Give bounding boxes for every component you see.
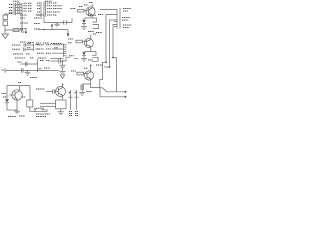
wire Q3 base: [10, 94, 16, 96]
wire lower-left bus vertical: [37, 59, 39, 72]
capacitor C12 row2 bank3: [12, 48, 34, 51]
wire Q3 emitter down: [16, 100, 18, 111]
net label cluster mid-left: [20, 15, 44, 32]
wire bus1 vertical: [21, 3, 23, 30]
label above cap row right: [69, 55, 74, 57]
net label row3 bank3: [13, 53, 23, 55]
crystal X1 box: [27, 100, 33, 107]
wire far right vertical long: [116, 58, 118, 92]
label Q2b collector: [93, 33, 96, 35]
label left of collector: [84, 4, 88, 6]
wire corner up right: [46, 109, 48, 112]
net labels column right of bus1: [24, 3, 33, 11]
label under K2: [96, 64, 103, 66]
switch SW1 blade: [102, 87, 108, 92]
label row under mid section: [20, 42, 62, 44]
relay K2 winding lower: [92, 57, 98, 61]
junction bus1 bottom: [21, 29, 23, 31]
resistor R1 divider top: [4, 14, 6, 16]
resistor R2 divider bottom: [3, 21, 8, 26]
capacitor C8 row4 bank2: [37, 10, 60, 13]
junction bus C bottom: [105, 61, 107, 63]
capacitor C18: [21, 68, 23, 73]
wire bottom run: [30, 111, 47, 113]
wire X1 down: [29, 107, 31, 112]
net label row4 bank3: [15, 57, 25, 59]
wire contact line upper: [107, 91, 125, 93]
wire cap row left: [51, 60, 59, 62]
capacitor C5 row1 bank2: [37, 1, 57, 4]
label left of U2: [36, 107, 44, 109]
wire right bus A: [116, 10, 118, 29]
label tap: [9, 12, 13, 14]
terminal dot lower: [124, 96, 126, 98]
wire corner down right end: [67, 30, 69, 34]
capacitor C17: [25, 62, 27, 67]
ground GND6: [79, 90, 85, 95]
label relay top: [88, 14, 96, 16]
connector J1: [64, 44, 67, 58]
label right mid4: [123, 27, 129, 29]
label right mid2: [122, 19, 128, 21]
wire horizontal node row y30: [5, 29, 22, 31]
capacitor C2 row2 bank1: [9, 6, 22, 9]
capacitor C1 row1 bank1: [9, 3, 22, 6]
label bottom-left1: [8, 116, 16, 118]
capacitor C19 marks: [42, 109, 46, 111]
junction bus E bottom: [112, 57, 114, 59]
transistor Q3: [12, 90, 22, 100]
label cap row left2: [46, 60, 50, 62]
capacitor C20: [53, 89, 55, 94]
wire bottom row to connector: [50, 57, 64, 59]
signal row3 to connector J1: [37, 52, 64, 54]
connector pin ticks: [114, 21, 117, 23]
capacitor C7 row3 bank2: [37, 7, 62, 10]
ground GND7: [25, 71, 30, 76]
label bottom row: [38, 57, 46, 59]
capacitor C14 to ground: [59, 61, 65, 72]
label cap row left: [40, 60, 44, 62]
wire U2 down: [60, 109, 62, 112]
wire Q1 emitter down: [91, 15, 93, 18]
arrow down net: [67, 34, 70, 37]
wire divider to ground: [4, 26, 6, 35]
label base left1: [2, 93, 7, 95]
ground GND5: [81, 58, 87, 61]
wire divider mid: [4, 20, 6, 22]
label bottom right of relay: [96, 32, 102, 34]
label R4: [71, 8, 76, 10]
terminal bar left: [4, 68, 6, 72]
ground GND4: [59, 72, 65, 79]
junction C13: [62, 60, 64, 62]
wire Q1 collector up: [91, 4, 93, 8]
wire Q3 collector T: [7, 86, 30, 100]
wire top-mid horizontal y22.5: [44, 22, 72, 24]
wire mid rail y70: [38, 70, 60, 72]
diode D1: [82, 18, 86, 27]
wire stub from bank2: [43, 17, 45, 23]
wire corner chain left: [100, 62, 106, 87]
label above mid rail: [44, 67, 50, 69]
label bottom-left2: [19, 115, 25, 117]
wire top-right horizontal: [100, 9, 117, 11]
capacitor C4 row4 bank1: [9, 12, 22, 15]
wire Q2b emitter down: [90, 47, 92, 52]
label D3 vertical: [69, 112, 73, 116]
capacitor C10 small: [25, 28, 27, 32]
wire to C20: [46, 91, 53, 93]
wire Q2 emitter down: [90, 79, 92, 84]
wire Q4 emitter down: [62, 95, 64, 100]
label right mid1: [122, 17, 130, 19]
relay K1 winding lower: [93, 25, 99, 29]
capacitor C16 stack: [81, 85, 83, 91]
wire segment B left: [104, 66, 110, 68]
wire R4 to Q1 base: [84, 10, 89, 12]
label above Q2: [84, 67, 88, 69]
label left of box: [22, 96, 26, 98]
label Q4 input: [36, 88, 45, 90]
resistor R6: [76, 40, 83, 43]
wire corner up to left rail stub: [66, 57, 71, 61]
label Q2b row2: [68, 42, 72, 44]
wire contact line lower: [100, 96, 125, 98]
wire stub bus D: [110, 20, 118, 67]
wire mid horizontal y29.5: [38, 29, 68, 31]
label R5: [71, 70, 76, 72]
wire right bus B: [119, 8, 121, 29]
wire link to far vertical: [113, 57, 117, 59]
ground GND2: [54, 23, 60, 28]
capacitor C3 row3 bank1: [9, 9, 22, 12]
junction switch node: [99, 87, 100, 88]
label base left2: [3, 96, 7, 98]
label left of C17: [18, 61, 22, 63]
label under ground: [88, 31, 94, 33]
wire right branch down: [29, 86, 31, 101]
label right mid3: [123, 24, 131, 26]
wire stub bus C: [106, 15, 117, 63]
capacitor C13: [59, 59, 66, 64]
wire C20 to Q4 base: [54, 91, 58, 93]
transistor Q4: [56, 87, 66, 97]
capacitor C6 row2 bank2: [37, 4, 62, 7]
label left terminal: [2, 69, 5, 71]
label Q3 collector node: [18, 82, 21, 84]
signal row2 to connector J1: [37, 48, 64, 49]
wire divider tap: [5, 13, 9, 15]
wire Q2 emitter to corner: [91, 84, 100, 97]
terminal dot upper: [124, 91, 126, 93]
label bottom row2: [36, 116, 46, 118]
label Q2b row1: [68, 38, 73, 40]
label under GND6: [87, 91, 93, 93]
label above R4: [79, 6, 83, 8]
junction Q2 collector: [90, 65, 92, 67]
wire D2 to ground node: [7, 109, 17, 111]
relay K1 winding upper: [93, 18, 97, 22]
wire corner right end up: [71, 18, 73, 22]
wire stub bus E: [113, 25, 117, 58]
junction bus D bottom: [109, 66, 111, 68]
capacitor C11 row1 bank3: [12, 43, 34, 46]
label right bus top: [123, 8, 131, 10]
wire stub with arrow up: [51, 24, 53, 30]
diode D4 column: [74, 90, 78, 110]
wire Q2 collector up: [90, 66, 92, 73]
wire bus into U2 upper: [40, 102, 56, 104]
diode D2: [5, 99, 9, 110]
signal row1 to connector J1: [37, 44, 64, 45]
wire row lower y70.5: [5, 70, 38, 72]
ground GND1: [2, 34, 9, 39]
labels right of bus3: [36, 44, 39, 46]
wire bus3 vertical: [33, 44, 35, 52]
node VCC label top-left: [13, 0, 19, 2]
wire emitter node horizontal: [84, 17, 97, 19]
label small right2: [75, 58, 79, 60]
wire below Q2 horizontal: [82, 83, 90, 85]
trimmer tick: [34, 108, 36, 112]
junction mid: [43, 29, 45, 31]
label under bus: [30, 77, 37, 79]
transistor Q1: [86, 7, 95, 16]
label bottom row1: [36, 113, 50, 115]
diode D5: [82, 52, 86, 58]
wire R5 to Q2 base: [84, 73, 88, 75]
wire emitter node2 horizontal: [84, 51, 96, 53]
ground GND9: [58, 112, 64, 115]
wire bus2 vertical: [40, 2, 42, 17]
ground GND3: [81, 27, 87, 30]
resistor R4: [78, 9, 85, 12]
resistor R3: [13, 29, 19, 32]
junction Q4 collector: [62, 84, 63, 85]
label left of mid rail: [39, 68, 42, 70]
wire row C17: [21, 63, 38, 65]
IC U2 box: [56, 100, 67, 109]
diode D3 column: [68, 90, 72, 110]
label D4 vertical: [75, 112, 79, 116]
label collector net: [89, 2, 93, 4]
wire bus into U2 lower: [40, 105, 56, 107]
wire Q4 collector stub: [62, 84, 64, 87]
label right bus top2: [123, 10, 128, 12]
connector gap symbol: [63, 20, 64, 24]
resistor R5: [77, 72, 84, 75]
wire R6 to Q2b base: [83, 41, 87, 43]
label right of GND5: [88, 59, 93, 61]
wire Q2b collector up: [90, 35, 92, 40]
transistor Q2b: [84, 39, 93, 48]
label relay right: [98, 14, 103, 16]
transistor Q2: [84, 71, 93, 80]
node label top of bank2: [45, 0, 52, 2]
capacitor C9 row5 bank2: [37, 13, 57, 16]
ground GND8: [14, 111, 20, 114]
relay K2 winding upper: [92, 52, 96, 56]
